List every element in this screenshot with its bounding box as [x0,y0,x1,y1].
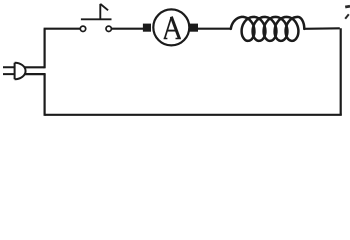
wire from switch to ammeter left terminal [111,28,143,30]
ammeter right terminal block [190,24,198,32]
ammeter label A [164,17,181,39]
wire from ammeter to coil L1 [198,28,232,30]
switch S handle flag [100,4,108,10]
wire from plug bottom terminal [24,73,45,75]
plug P (AC mains plug) [3,63,26,79]
inductor coil L1 [231,17,304,41]
switch S right terminal node [106,26,111,31]
wire right vertical [340,28,342,115]
switch S left terminal node [80,26,85,31]
ammeter U1 body circle [153,9,189,45]
wire bottom [45,114,342,116]
wire left vertical from bottom up to plug bottom terminal [43,74,45,116]
partial character at top-right edge [345,6,350,19]
switch S handle [99,4,101,19]
wire top from corner to switch left terminal [44,28,81,30]
ammeter left terminal block [143,24,151,32]
wire from plug top terminal to top-left corner [24,66,44,68]
wire left vertical up to top wire [43,29,45,69]
wire from coil to top-right corner [304,27,340,30]
switch S blade bar [81,18,112,20]
